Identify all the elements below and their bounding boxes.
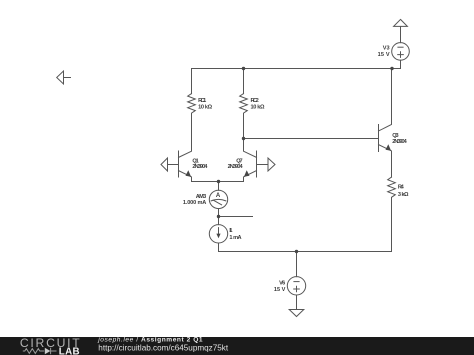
svg-text:2N3904: 2N3904 [192, 164, 208, 170]
svg-text:R4: R4 [398, 185, 405, 191]
svg-text:LAB: LAB [59, 346, 80, 355]
svg-text:2N3904: 2N3904 [392, 139, 407, 145]
svg-text:http://circuitlab.com/c645upmq: http://circuitlab.com/c645upmqz75kt [98, 343, 228, 353]
svg-text:1.000 mA: 1.000 mA [183, 200, 206, 206]
svg-text:RC2: RC2 [251, 98, 259, 104]
svg-text:2N3904: 2N3904 [228, 164, 244, 170]
svg-text:V3: V3 [383, 46, 390, 52]
svg-text:15 V: 15 V [378, 52, 390, 58]
svg-text:RC1: RC1 [198, 98, 206, 104]
svg-text:3 kΩ: 3 kΩ [398, 192, 409, 198]
svg-text:15 V: 15 V [274, 287, 286, 293]
svg-text:I1: I1 [229, 228, 232, 234]
svg-text:V6: V6 [279, 280, 285, 286]
svg-text:10 kΩ: 10 kΩ [251, 105, 266, 111]
svg-text:10 kΩ: 10 kΩ [198, 105, 213, 111]
svg-text:A: A [216, 193, 221, 199]
svg-text:1 mA: 1 mA [229, 235, 241, 241]
